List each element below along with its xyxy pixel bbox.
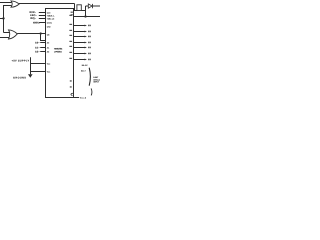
label data row 8 xyxy=(88,59,89,61)
curl mark xyxy=(71,93,73,95)
or-gate U1a xyxy=(11,1,19,7)
wire bottom right xyxy=(74,97,80,99)
pin name I/O1 xyxy=(69,24,72,25)
svg-text:GROUND: GROUND xyxy=(13,77,27,80)
battery BT1 box xyxy=(77,5,81,11)
pin names inside right edge xyxy=(69,12,72,88)
or-gate U1b xyxy=(9,30,18,39)
arrow row 2 xyxy=(85,25,87,27)
pin name bottom 2 xyxy=(70,86,72,87)
pin stub CS1 xyxy=(39,22,45,24)
svg-text:D0–D7: D0–D7 xyxy=(82,64,88,67)
wire data row 8 xyxy=(74,59,85,61)
diode D1 xyxy=(88,4,92,8)
svg-text:IRQ–: IRQ– xyxy=(30,17,37,20)
label data row 3 xyxy=(88,31,89,33)
pin stub third xyxy=(39,18,46,20)
svg-text:Vcc: Vcc xyxy=(47,62,50,65)
arrow row 8 xyxy=(85,59,87,61)
arrow row 5 xyxy=(85,42,87,44)
pin name I/O7 xyxy=(69,58,72,59)
pin name I/O3 xyxy=(69,35,72,36)
pin stub WE xyxy=(39,12,46,14)
wire ground drop xyxy=(30,72,32,75)
pin stub A1 xyxy=(40,47,45,49)
ground symbol xyxy=(28,74,33,78)
pin name I/O6 xyxy=(69,52,72,53)
wire input A top xyxy=(0,2,11,4)
svg-text:A2: A2 xyxy=(47,50,49,53)
label data row 7 xyxy=(88,53,89,55)
svg-text:A0–: A0– xyxy=(35,41,40,44)
wire input B xyxy=(0,37,10,39)
svg-text:A1: A1 xyxy=(47,46,49,49)
wire gate1 lower input xyxy=(4,6,12,33)
svg-text:LP6264: LP6264 xyxy=(54,50,62,53)
pin name I/O0 xyxy=(69,15,72,16)
node junction dot left xyxy=(2,17,4,19)
pin number top right2 xyxy=(71,14,73,15)
pin name bottom 1 xyxy=(70,80,72,81)
label data row 4 xyxy=(88,36,89,38)
label data row 6 xyxy=(88,47,89,49)
pin name I/O4 xyxy=(69,41,72,42)
wire data row 6 xyxy=(74,47,85,49)
pin stub OE xyxy=(39,15,46,17)
svg-text:CE: CE xyxy=(47,33,50,36)
svg-text:CAS1: CAS1 xyxy=(47,21,52,24)
wire data row 4 xyxy=(74,36,85,38)
wire diode cathode out xyxy=(93,5,101,7)
pin stub A0 xyxy=(40,42,45,44)
arrow row 4 xyxy=(85,36,87,38)
svg-text:A1–: A1– xyxy=(35,46,40,49)
wire battery to diode node xyxy=(81,10,85,12)
pin name I/O5 xyxy=(69,46,72,47)
svg-text:INPUT: INPUT xyxy=(93,81,100,84)
svg-text:I/O–7: I/O–7 xyxy=(81,69,86,72)
dash marks xyxy=(90,88,93,95)
wire ground pin xyxy=(31,64,46,72)
wire to battery xyxy=(75,4,77,11)
pin name I/O2 xyxy=(69,30,72,31)
svg-text:Vss: Vss xyxy=(47,70,50,73)
wire data row 7 xyxy=(74,53,85,55)
label data row 2 xyxy=(88,25,89,27)
arrow row 7 xyxy=(85,53,87,55)
wire data row 2 xyxy=(74,25,85,27)
wire gate1 output xyxy=(19,3,75,5)
node junction dot row1 xyxy=(84,15,86,17)
arrow row 3 xyxy=(85,31,87,33)
bracket xyxy=(89,68,90,86)
pin names inside left edge xyxy=(47,11,55,73)
wire diode node vertical xyxy=(85,6,87,17)
wire gate2 output xyxy=(17,33,45,35)
wire gate2 top input xyxy=(4,32,10,34)
svg-text:C13: C13 xyxy=(47,11,50,14)
wire +5V supply xyxy=(31,57,46,63)
wire row1 data xyxy=(74,16,101,18)
pin stub A2 xyxy=(40,51,45,53)
label data row 5 xyxy=(88,42,89,44)
IC U2 SRAM body xyxy=(46,9,74,98)
pin number top right xyxy=(71,12,73,13)
svg-text:Vss–2: Vss–2 xyxy=(80,96,86,99)
wire branch from left edge xyxy=(0,18,4,20)
wire data row 5 xyxy=(74,42,85,44)
svg-text:4MHz: 4MHz xyxy=(33,21,40,24)
svg-text:A2–: A2– xyxy=(35,50,40,53)
svg-text:+5V SUPPLY: +5V SUPPLY xyxy=(12,60,30,63)
labels left side outside xyxy=(30,11,41,53)
svg-text:TMDS–L: TMDS–L xyxy=(47,14,55,17)
svg-text:TMD–L3: TMD–L3 xyxy=(47,17,54,20)
wire from dot to second pin xyxy=(41,34,46,41)
svg-text:A0: A0 xyxy=(47,41,49,44)
node junction dot CS xyxy=(40,32,42,34)
svg-text:HM6264: HM6264 xyxy=(54,48,63,51)
wire diode anode xyxy=(86,5,89,7)
arrow row 6 xyxy=(85,47,87,49)
wire data row 3 xyxy=(74,31,85,33)
svg-text:CS2: CS2 xyxy=(47,25,51,28)
